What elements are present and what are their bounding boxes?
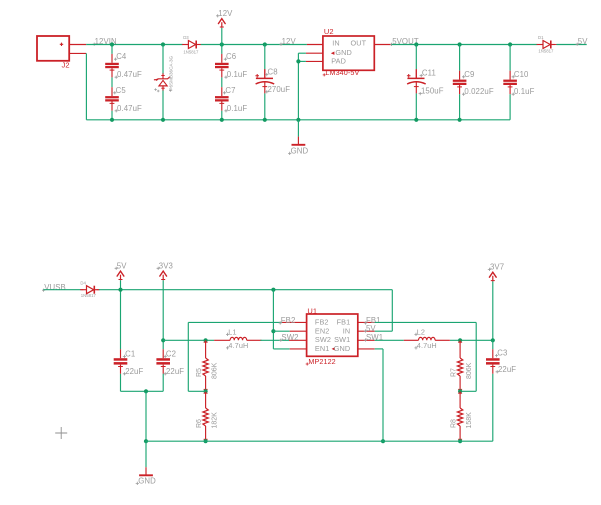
svg-text:12V: 12V xyxy=(282,37,297,46)
inductor L1 xyxy=(214,339,230,341)
svg-text:C11: C11 xyxy=(422,69,436,78)
U2 pin GND xyxy=(306,52,323,54)
supply 3V7 xyxy=(488,268,491,271)
capacitor C8 polarized xyxy=(263,42,267,46)
svg-text:GND: GND xyxy=(334,344,351,353)
svg-text:C6: C6 xyxy=(226,52,236,61)
svg-text:C3: C3 xyxy=(497,349,507,358)
net label FB2 xyxy=(279,321,282,324)
wire 5V rail bottom xyxy=(99,289,392,291)
svg-text:IN: IN xyxy=(343,326,351,335)
svg-text:R6: R6 xyxy=(196,419,203,428)
U1 pin SW1 xyxy=(358,339,375,341)
svg-text:EN1: EN1 xyxy=(315,344,330,353)
net label 12VIN xyxy=(93,43,96,46)
connector J2 xyxy=(37,36,69,61)
U1 pin EN1 xyxy=(290,348,307,350)
capacitor C5 xyxy=(111,77,113,87)
resistor R8 xyxy=(458,389,462,393)
svg-text:OUT: OUT xyxy=(350,38,366,47)
capacitor C4 xyxy=(110,42,114,46)
wire top bottom-rail xyxy=(86,119,510,121)
svg-text:U1: U1 xyxy=(307,307,317,316)
svg-text:D3: D3 xyxy=(183,35,189,40)
svg-text:FB1: FB1 xyxy=(337,318,351,327)
svg-text:C2: C2 xyxy=(166,349,176,358)
svg-text:182K: 182K xyxy=(212,412,219,429)
svg-text:3V3: 3V3 xyxy=(159,261,173,270)
svg-text:L1: L1 xyxy=(228,327,236,336)
net label 5V xyxy=(364,329,367,332)
U2 pin PAD xyxy=(306,60,323,62)
U2 pin IN xyxy=(307,44,323,46)
supply 5V xyxy=(115,267,118,270)
svg-text:5V: 5V xyxy=(578,37,588,46)
wire 3V3 column xyxy=(162,280,164,340)
svg-text:C5: C5 xyxy=(116,86,127,95)
wire 5VOUT rail xyxy=(392,44,538,46)
ground GND top xyxy=(297,120,299,137)
svg-text:806K: 806K xyxy=(212,362,219,379)
wire to ground xyxy=(144,389,148,393)
svg-text:P6SMB36CA-3G: P6SMB36CA-3G xyxy=(169,55,174,90)
svg-text:12V: 12V xyxy=(218,9,233,18)
svg-text:4.7uH: 4.7uH xyxy=(228,341,248,350)
wire SW1 to L2 xyxy=(375,339,404,341)
svg-text:IN: IN xyxy=(332,38,340,47)
wire 5V xyxy=(556,44,586,46)
diode D3 xyxy=(183,44,188,46)
wire L1 to SW2 xyxy=(260,339,289,341)
diode D1 xyxy=(538,44,543,46)
wire bottom rail xyxy=(146,440,493,442)
svg-text:0.47uF: 0.47uF xyxy=(117,104,142,113)
zener diode D2 xyxy=(161,42,165,46)
U1 pin FB1 xyxy=(358,321,375,323)
svg-text:4.7uH: 4.7uH xyxy=(417,341,437,350)
net label 12V at U2 xyxy=(279,43,282,46)
svg-text:FB2: FB2 xyxy=(315,318,329,327)
svg-text:1N5817: 1N5817 xyxy=(183,49,199,54)
supply +12V xyxy=(220,42,224,46)
svg-text:D4: D4 xyxy=(80,281,86,286)
svg-text:0.022uF: 0.022uF xyxy=(464,87,493,96)
wire FB2 feedback xyxy=(188,321,281,323)
wire 12V rail xyxy=(201,44,307,46)
svg-text:SW2: SW2 xyxy=(281,333,298,342)
resistor R6 xyxy=(204,389,208,393)
svg-text:VUSB: VUSB xyxy=(44,283,66,292)
capacitor C7 xyxy=(221,77,223,87)
capacitor C6 xyxy=(221,45,223,54)
wire L2 to 3V7 xyxy=(450,339,493,341)
svg-text:270uF: 270uF xyxy=(268,85,291,94)
svg-text:R7: R7 xyxy=(450,368,457,377)
capacitor C10 xyxy=(508,42,512,46)
svg-text:J2: J2 xyxy=(62,60,70,69)
wire VUSB xyxy=(43,289,81,291)
svg-text:LM340-5V: LM340-5V xyxy=(325,68,359,77)
wire IN to VUSB rail xyxy=(375,330,393,332)
svg-text:GND: GND xyxy=(291,146,309,155)
svg-text:158K: 158K xyxy=(466,412,473,429)
capacitor C11 polarized xyxy=(414,42,418,46)
IC U1 MP2122 xyxy=(307,314,358,356)
wire C1-C2 bottom xyxy=(121,390,164,392)
sheet origin cross xyxy=(55,427,67,439)
svg-text:C7: C7 xyxy=(225,86,235,95)
resistor R7 xyxy=(458,338,462,342)
svg-text:SW1: SW1 xyxy=(334,335,350,344)
IC U2 LM340-5V xyxy=(323,36,374,70)
svg-text:C8: C8 xyxy=(268,68,278,77)
wire U1 GND to rail xyxy=(375,348,383,350)
svg-text:C4: C4 xyxy=(116,52,127,61)
net label SW1 xyxy=(364,338,367,341)
svg-text:MP2122: MP2122 xyxy=(308,357,335,366)
svg-text:3V7: 3V7 xyxy=(490,262,504,271)
svg-text:GND: GND xyxy=(138,476,156,485)
net label 5V xyxy=(576,43,579,46)
svg-text:0.1uF: 0.1uF xyxy=(227,104,248,113)
U1 pin GND xyxy=(358,348,375,350)
wire L1 output row xyxy=(161,338,165,342)
wire 12VIN from J2 pin2 down xyxy=(85,53,87,119)
svg-text:22uF: 22uF xyxy=(166,367,184,376)
wire C10 to rail corner xyxy=(509,94,511,120)
svg-text:SW2: SW2 xyxy=(315,335,331,344)
svg-text:C9: C9 xyxy=(464,70,474,79)
wire zener to rail xyxy=(162,90,164,119)
svg-text:0.1uF: 0.1uF xyxy=(227,70,248,79)
svg-text:22uF: 22uF xyxy=(125,367,143,376)
net label FB1 xyxy=(364,321,367,324)
svg-text:EN2: EN2 xyxy=(315,326,330,335)
svg-text:PAD: PAD xyxy=(331,57,346,66)
U1 pin SW2 xyxy=(289,339,307,341)
U1 pin FB2 xyxy=(282,321,307,323)
svg-text:FB2: FB2 xyxy=(281,316,296,325)
svg-text:C1: C1 xyxy=(125,349,135,358)
U1 pin IN xyxy=(358,330,375,332)
svg-text:R5: R5 xyxy=(196,368,203,377)
svg-text:0.47uF: 0.47uF xyxy=(117,70,142,79)
net label SW2 xyxy=(279,339,282,342)
svg-text:D1: D1 xyxy=(538,35,544,40)
capacitor C3 xyxy=(492,340,494,349)
wire C3 to rail xyxy=(492,374,494,441)
svg-text:5V: 5V xyxy=(117,261,127,270)
svg-text:806K: 806K xyxy=(466,362,473,379)
wire 12VIN rail xyxy=(86,44,183,46)
capacitor C9 xyxy=(458,42,462,46)
svg-text:C10: C10 xyxy=(514,70,529,79)
resistor R5 xyxy=(204,338,208,342)
wire U2 GND/PAD to rail xyxy=(298,52,306,54)
svg-text:22uF: 22uF xyxy=(498,365,516,374)
svg-text:1N5817: 1N5817 xyxy=(81,293,97,298)
net label VUSB xyxy=(42,289,45,292)
U1 pin EN2 xyxy=(290,330,307,332)
svg-text:L2: L2 xyxy=(417,327,425,336)
wire EN column xyxy=(271,288,275,292)
svg-text:150uF: 150uF xyxy=(421,87,444,96)
U2 pin OUT xyxy=(374,44,391,46)
svg-text:1N5817: 1N5817 xyxy=(538,49,554,54)
wire 3V7 column xyxy=(492,281,494,340)
ground GND bottom xyxy=(145,441,147,467)
wire C5 to rail xyxy=(111,111,113,120)
wire C8 to rail xyxy=(264,93,266,119)
capacitor C1 xyxy=(120,349,122,358)
svg-text:R8: R8 xyxy=(450,419,457,428)
diode D4 xyxy=(81,289,86,291)
net label 5VOUT xyxy=(390,43,393,46)
svg-text:0.1uF: 0.1uF xyxy=(514,87,535,96)
wire FB1 feedback xyxy=(375,321,477,323)
supply 3V3 xyxy=(157,267,160,270)
capacitor C2 xyxy=(162,340,164,349)
inductor L2 xyxy=(404,339,419,341)
svg-text:U2: U2 xyxy=(324,27,334,36)
